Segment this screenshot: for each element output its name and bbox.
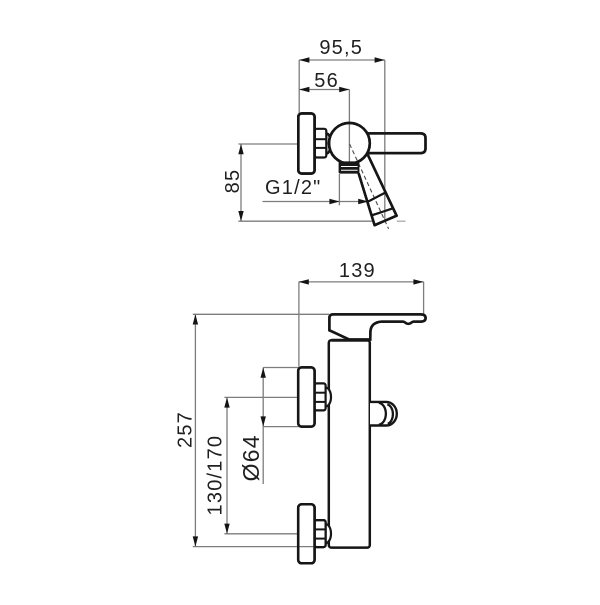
svg-text:G1/2": G1/2" (265, 177, 321, 199)
svg-text:257: 257 (175, 411, 197, 448)
svg-text:85: 85 (222, 169, 244, 194)
svg-text:130/170: 130/170 (204, 435, 226, 516)
svg-text:56: 56 (314, 70, 339, 92)
svg-text:95,5: 95,5 (319, 37, 363, 59)
svg-text:Ø64: Ø64 (238, 434, 264, 481)
svg-text:139: 139 (339, 260, 376, 282)
